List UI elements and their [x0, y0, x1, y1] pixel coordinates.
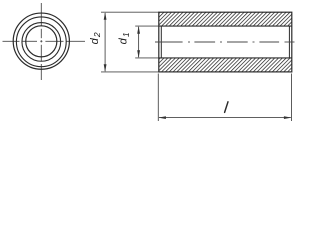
dimension l: dimension line: [159, 117, 291, 119]
front view: outer chamfer circle: [16, 17, 66, 67]
section view: top hatched band: [159, 12, 292, 26]
section view: right bore chamfer line: [288, 26, 290, 58]
front view: inner chamfer circle: [22, 23, 61, 62]
dimension d2: arrowhead down: [104, 64, 107, 72]
front view: bore circle d1: [26, 26, 57, 57]
dimension d1: dimension line: [138, 27, 140, 57]
dimension d2: extension line bottom: [101, 71, 159, 73]
dimension d1: arrowhead down: [137, 50, 140, 58]
dimension d1: extension line top: [135, 25, 159, 27]
dimension l: arrowhead right: [284, 116, 292, 119]
section view: axis centerline: [155, 41, 295, 43]
label d2: [89, 32, 102, 44]
front view: outer circle d2: [13, 13, 69, 69]
section view: left bore chamfer line: [160, 26, 162, 58]
dimension l: extension line left: [157, 74, 159, 122]
section view: outline rectangle: [159, 12, 292, 72]
dimension d2: extension line top: [101, 11, 159, 13]
section view: bore line bottom: [159, 57, 292, 59]
dimension d2: arrowhead up: [104, 12, 107, 20]
section view: bore line top: [159, 25, 292, 27]
dimension d1: arrowhead up: [137, 26, 140, 34]
dimension l: arrowhead left: [158, 116, 166, 119]
front view: vertical centerline: [40, 3, 42, 80]
front view: horizontal centerline: [3, 40, 86, 42]
label l: [225, 102, 228, 113]
dimension d2: dimension line: [104, 13, 106, 71]
label d1: [118, 32, 131, 44]
dimension d1: extension line bottom: [135, 57, 159, 59]
section view: bottom hatched band: [159, 58, 292, 72]
dimension l: extension line right: [291, 74, 293, 122]
